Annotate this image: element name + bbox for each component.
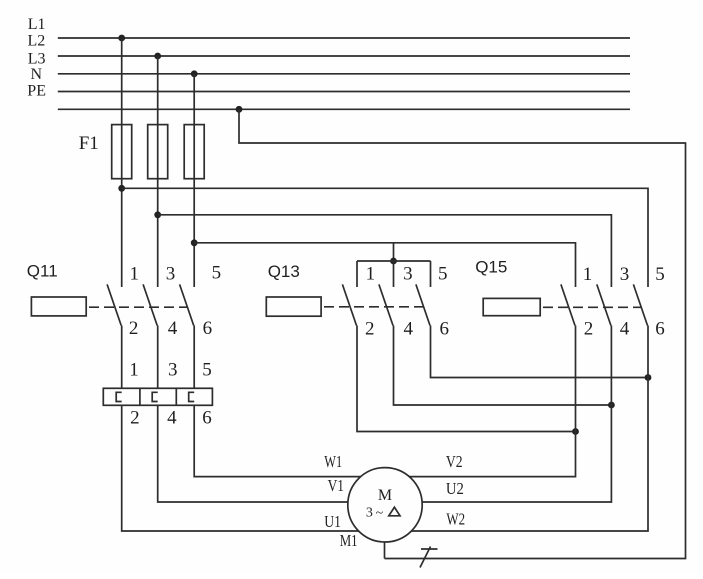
fuse F1 pole 2 xyxy=(148,125,168,179)
overload heater 1 xyxy=(116,392,122,401)
node on L1 (tap to fuse 1) xyxy=(118,35,125,42)
Q11 actuator dashed link xyxy=(89,306,188,308)
svg-text:F1: F1 xyxy=(79,133,99,154)
Q13 contact 3-4 blade xyxy=(379,284,393,325)
node W2 junction xyxy=(645,374,652,381)
svg-text:W2: W2 xyxy=(446,510,465,529)
wire motor frame stub xyxy=(384,542,386,559)
Q13 contact 5-6 blade xyxy=(416,284,430,325)
contactor Q13 coil xyxy=(266,297,321,316)
wire Q11-4 to overload F2-3 xyxy=(157,326,159,389)
supply line L2 xyxy=(58,55,630,57)
overload heater 2 xyxy=(152,392,158,401)
svg-text:6: 6 xyxy=(655,319,665,340)
wire overload-4 down to V1 xyxy=(158,405,348,502)
wire Q15-4 down to motor U2 xyxy=(422,326,611,503)
Q13 terminal 1 stub xyxy=(356,261,358,287)
svg-text:5: 5 xyxy=(202,359,212,380)
svg-text:6: 6 xyxy=(203,318,213,339)
ground symbol slash xyxy=(420,547,431,568)
wire feed stub to Q13 bridge xyxy=(393,243,395,261)
svg-text:4: 4 xyxy=(168,318,178,339)
svg-text:Q13: Q13 xyxy=(268,262,300,281)
svg-text:Q11: Q11 xyxy=(27,261,58,280)
svg-text:3: 3 xyxy=(403,263,413,284)
contactor Q11 coil xyxy=(31,297,86,316)
node below fuse 2 xyxy=(154,211,161,218)
wire Q13-6 to node W2 xyxy=(431,326,649,378)
node on L2 (tap to fuse 2) xyxy=(154,53,161,60)
Q13 bridge bar (terminals 1-3-5 commoned) xyxy=(357,260,431,262)
svg-text:L1: L1 xyxy=(28,16,46,33)
ground symbol bar xyxy=(421,548,438,550)
node V2 junction xyxy=(572,428,579,435)
svg-text:6: 6 xyxy=(202,407,212,428)
wire Q13-2 to node V2 xyxy=(357,326,576,432)
wire L3 tap down through fuse 3 to contact Q11-5 xyxy=(193,74,195,287)
node below fuse 3 xyxy=(191,239,198,246)
svg-text:3: 3 xyxy=(620,264,630,285)
svg-text:~: ~ xyxy=(376,506,384,521)
svg-text:Q15: Q15 xyxy=(475,258,507,277)
wire Q13-4 to node U2 xyxy=(394,326,612,406)
svg-text:N: N xyxy=(31,66,43,83)
Q11 contact 5-6 blade xyxy=(180,284,194,325)
svg-text:5: 5 xyxy=(212,262,222,283)
svg-text:3: 3 xyxy=(166,263,176,284)
wire overload-2 down to U1 xyxy=(122,405,359,531)
fuse F1 pole 1 xyxy=(112,125,132,179)
svg-text:2: 2 xyxy=(365,319,375,340)
overload relay body xyxy=(103,388,212,405)
Q13 terminal 3 stub xyxy=(393,261,395,287)
Q15 contact 1-2 blade xyxy=(561,284,575,325)
Q15 contact 3-4 blade xyxy=(597,284,611,325)
svg-text:U2: U2 xyxy=(446,479,464,498)
svg-text:W1: W1 xyxy=(324,452,342,471)
svg-text:2: 2 xyxy=(130,407,140,428)
node Q13 bridge xyxy=(390,258,397,265)
wire L2 tap down through fuse 2 to contact Q11-3 xyxy=(157,56,159,287)
wire Q11-6 to overload F2-5 xyxy=(193,326,195,389)
supply line N xyxy=(58,91,630,93)
overload heater 3 xyxy=(189,392,195,401)
wire PE to motor frame (right side loop) xyxy=(239,109,686,558)
wire L1 tap down through fuse 1 to contact Q11-1 xyxy=(121,38,123,287)
wire Q15-2 down to motor V2 xyxy=(409,326,575,477)
Q15 contact 5-6 blade xyxy=(633,284,647,325)
node U2 junction xyxy=(608,402,615,409)
supply line L3 xyxy=(58,73,630,75)
overload relay divider 2 xyxy=(175,388,177,405)
svg-text:U1: U1 xyxy=(324,512,341,531)
svg-text:1: 1 xyxy=(583,264,593,285)
node on L3 (tap to fuse 3) xyxy=(191,70,198,77)
node below fuse 1 xyxy=(118,185,125,192)
svg-text:3: 3 xyxy=(168,359,178,380)
wire fuse2 output to Q15 contact 3 xyxy=(158,215,612,287)
svg-text:4: 4 xyxy=(620,319,630,340)
svg-text:V1: V1 xyxy=(328,476,344,495)
svg-text:5: 5 xyxy=(655,264,665,285)
svg-text:1: 1 xyxy=(130,263,140,284)
svg-text:PE: PE xyxy=(27,82,46,99)
motor M circle xyxy=(348,468,422,542)
Q13 terminal 5 stub xyxy=(430,261,432,287)
svg-text:V2: V2 xyxy=(446,452,463,471)
supply line L1 xyxy=(58,37,630,39)
svg-text:5: 5 xyxy=(438,263,448,284)
svg-text:6: 6 xyxy=(440,319,450,340)
node on PE line xyxy=(236,106,243,113)
wire fuse3 output to Q15 contact 1 xyxy=(194,243,575,287)
svg-text:M: M xyxy=(378,487,392,504)
svg-text:4: 4 xyxy=(404,319,414,340)
svg-text:M1: M1 xyxy=(340,531,358,550)
wire Q11-2 to overload F2-1 xyxy=(121,326,123,389)
svg-text:2: 2 xyxy=(129,318,139,339)
wire overload-6 down to W1 xyxy=(194,405,361,476)
wire fuse1 output to Q15 contact 5 xyxy=(122,188,648,287)
svg-text:2: 2 xyxy=(584,319,594,340)
fuse F1 pole 3 xyxy=(184,125,204,179)
motor delta symbol xyxy=(389,507,400,516)
Q15 actuator dashed link xyxy=(543,306,641,308)
wire Q15-6 down to motor W2 xyxy=(411,326,648,532)
Q13 actuator dashed link xyxy=(324,306,426,308)
svg-text:4: 4 xyxy=(167,407,177,428)
supply line PE xyxy=(58,108,630,110)
overload relay divider 1 xyxy=(139,388,141,405)
Q11 contact 1-2 blade xyxy=(107,284,121,325)
contactor Q15 coil xyxy=(483,298,540,315)
svg-text:3: 3 xyxy=(366,505,373,520)
Q13 contact 1-2 blade xyxy=(342,284,356,325)
svg-text:L2: L2 xyxy=(28,33,46,50)
svg-text:1: 1 xyxy=(129,359,139,380)
Q11 contact 3-4 blade xyxy=(143,284,157,325)
svg-text:1: 1 xyxy=(366,263,376,284)
